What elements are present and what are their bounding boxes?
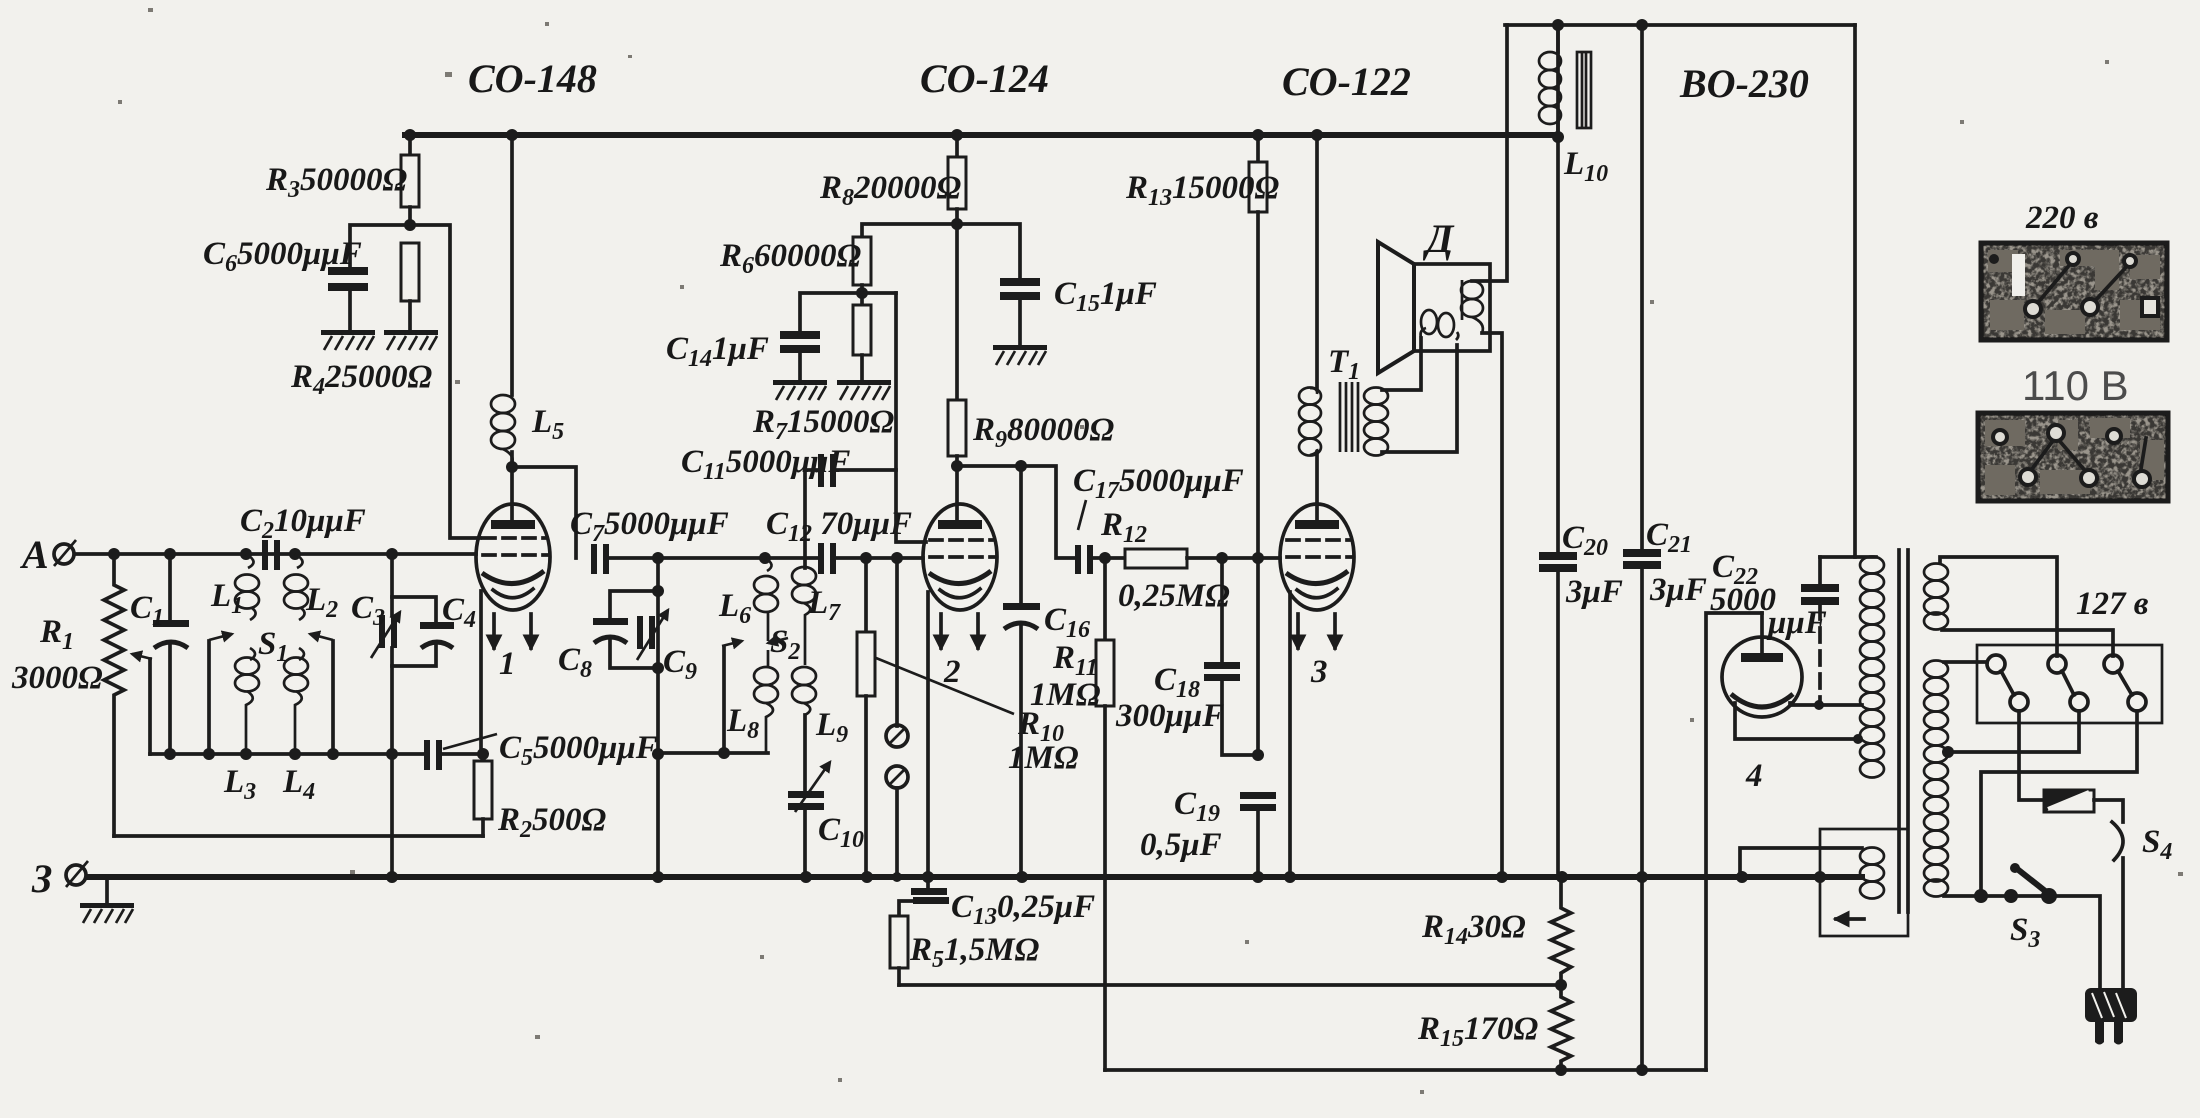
power transformer primary winding 1 (1924, 564, 1948, 630)
node junction dots on ground bus (386, 871, 1826, 883)
wire: S3 to plug (2049, 896, 2100, 990)
tube 4 filament arc (1731, 694, 1793, 707)
selector top contacts (1987, 655, 2005, 673)
capacitor C16 (1019, 466, 1023, 603)
resistor R10 1MΩ (864, 558, 868, 632)
svg-text:3μF: 3μF (1565, 574, 1623, 610)
node: R3/R4 junction (404, 219, 416, 231)
svg-text:C151μF: C151μF (1054, 276, 1157, 317)
variable capacitor C9 (637, 616, 643, 649)
capacitor C15 1μF (1000, 278, 1040, 286)
resistor R11 1MΩ (1103, 558, 1107, 640)
switch S3 (1974, 888, 2057, 904)
T1 secondary winding (1364, 388, 1388, 405)
tube 1 grid dashes (483, 538, 547, 555)
svg-text:C210μμF: C210μμF (240, 503, 366, 544)
wire: detector tank bottom rail (658, 751, 768, 755)
tube 1 heater arrows (492, 614, 496, 648)
svg-text:R980000Ω: R980000Ω (972, 412, 1115, 453)
svg-text:CO-122: CO-122 (1282, 59, 1411, 104)
tube 1 anode bar (491, 520, 535, 529)
capacitor C18 300μμF (1220, 558, 1224, 662)
wire: S1 right post (331, 641, 335, 754)
L10 core bar (1577, 52, 1591, 128)
svg-text:А: А (19, 532, 49, 577)
wire: rectifier output top line (1505, 23, 1855, 27)
wire: plate junction to C16/C17 (957, 466, 1078, 558)
svg-text:1: 1 (499, 646, 516, 682)
wire: C8/C9 branch drop (656, 558, 660, 877)
vacuum tube 2 (CO-124) envelope (923, 504, 997, 610)
inductor L2 (295, 554, 303, 568)
wire: tank circuit ground rail (150, 752, 427, 756)
svg-text:4: 4 (1745, 758, 1763, 794)
wire: fuse to S4 (2094, 800, 2123, 822)
tube 2 heater arrows (939, 614, 943, 648)
node junction dots on B+ bus (404, 129, 1564, 143)
capacitor C4 (420, 622, 454, 629)
capacitor C5 5000μμF (424, 740, 430, 770)
wire: junction to C6 (350, 225, 410, 267)
inductor L6 (765, 558, 772, 571)
capacitor C14 1μF (780, 331, 820, 339)
wire: primary W2 bottom to switch S3 (1944, 894, 2049, 898)
svg-text:R660000Ω: R660000Ω (719, 238, 862, 279)
svg-text:R15170Ω: R15170Ω (1417, 1011, 1539, 1052)
resistor R1 3000Ω (potentiometer) (104, 554, 124, 836)
wire: B+ to T1 primary (1315, 135, 1319, 388)
wire: bias network bottom line (1105, 1068, 1706, 1072)
tube 2 cathode arcs (929, 571, 991, 584)
wire: junction to C14 (800, 293, 896, 331)
wire: tube 2 screen feed (896, 470, 926, 542)
wire: tube1 output line to C12 (609, 556, 820, 560)
socket S4 (2112, 822, 2123, 860)
svg-text:R350000Ω: R350000Ω (265, 162, 408, 203)
svg-text:2: 2 (943, 654, 961, 690)
svg-text:BO-230: BO-230 (1679, 61, 1809, 106)
wire: B+ to L5 (510, 135, 514, 395)
wire: primary W2 tap to selector (1948, 711, 2079, 752)
wire: tube 4 filament left lead (1735, 703, 1856, 739)
resistor R8 20000Ω (955, 135, 959, 157)
tube 1 cathode arcs (482, 571, 544, 584)
svg-text:220 в: 220 в (2025, 200, 2099, 236)
capacitor C21 3μF (1640, 25, 1644, 549)
svg-text:μμF: μμF (1766, 605, 1827, 641)
wire: tube 1 cathode lead (479, 591, 483, 754)
node: C18/C19 junction (1252, 749, 1264, 761)
node: R8 bottom junction (951, 218, 963, 230)
wire: screen feed of tube 1 (410, 225, 480, 538)
selector links (2001, 671, 2014, 695)
mains plug (2085, 988, 2137, 1022)
wire: HT line down to transformer top (1820, 25, 1855, 557)
svg-text:C141μF: C141μF (666, 331, 769, 372)
wire: primary W2 top to selector circle 1 (1944, 660, 1987, 664)
wire: S4 to plug (2121, 858, 2125, 990)
fuse (2044, 790, 2094, 812)
node: R6/R7/C14 junction (856, 287, 868, 299)
resistor R2 500Ω (474, 761, 492, 819)
transformer tap adjust arrow (1836, 917, 1864, 921)
svg-text:R2500Ω: R2500Ω (497, 802, 607, 843)
wire: C12 to tube 2 grid (836, 556, 923, 560)
svg-text:R715000Ω: R715000Ω (752, 404, 895, 445)
capacitor C8 (610, 591, 658, 618)
wire: L7 top to C11 (805, 468, 818, 472)
variable capacitor C10 (803, 715, 807, 791)
svg-text:1MΩ: 1MΩ (1008, 740, 1079, 776)
wire: R1 wiper to tank rail (148, 659, 152, 754)
wire: T1 secondary top to humbucking coil (1382, 338, 1421, 390)
svg-text:Д: Д (1422, 216, 1455, 261)
svg-text:127 в: 127 в (2076, 586, 2149, 622)
ground below C6 (321, 330, 375, 350)
capacitor C6 5000μμF (328, 267, 368, 275)
svg-text:R820000Ω: R820000Ω (819, 170, 962, 211)
wire: S2 pole to rail (722, 648, 726, 753)
svg-text:R51,5MΩ: R51,5MΩ (909, 932, 1040, 973)
tube 4 anode bar (1741, 653, 1783, 662)
svg-text:C130,25μF: C130,25μF (951, 889, 1095, 930)
svg-text:0,25MΩ: 0,25MΩ (1118, 578, 1230, 614)
110V plugboard photo (1978, 413, 2168, 501)
resistor R9 80000Ω (955, 224, 959, 400)
voice coil (1461, 280, 1464, 320)
capacitor C1 (168, 554, 172, 622)
R1 wiper arrow (132, 654, 152, 659)
loudspeaker magnet frame (1414, 264, 1490, 351)
humbucking coil (1421, 310, 1437, 334)
node: tube 2 plate junction (951, 460, 963, 472)
inductor L5 (491, 395, 515, 413)
capacitor C20 3μF (1556, 25, 1560, 552)
svg-text:R425000Ω: R425000Ω (290, 359, 433, 400)
ground below R7 (837, 380, 891, 400)
power transformer HV secondary winding (1855, 555, 1876, 559)
220V plugboard photo (1981, 243, 2167, 340)
ground below C15 (993, 345, 1047, 365)
filter choke L10 (1556, 25, 1560, 52)
variable capacitor C3 (379, 615, 385, 648)
wire: AVC line R5 to R14/R15 junction (899, 983, 1559, 987)
wire: selector circle1 to fuse (2019, 711, 2044, 800)
wire: voice coil bottom to ground bus (1482, 333, 1502, 877)
resistor R4 25000Ω (401, 243, 419, 301)
ground below R4 (384, 330, 438, 350)
inductor L9 (792, 667, 816, 685)
inductor L1 (246, 554, 254, 568)
tube 2 anode bar (938, 520, 982, 529)
resistor R5 1,5MΩ (890, 916, 908, 968)
wire: C11 to R6/R7 junction (836, 293, 896, 470)
resistor R14 30Ω (1551, 877, 1571, 985)
wire: antenna line A (76, 552, 476, 556)
pickup jack terminal circles (895, 558, 899, 726)
wire: primary W1 top to selector (1940, 557, 2057, 656)
svg-text:C12 70μμF: C12 70μμF (766, 506, 912, 547)
wire: rail drop to ground bus (390, 754, 394, 877)
wire: T1 secondary bottom (1382, 345, 1457, 452)
wire: junction to R6 (862, 224, 957, 237)
T1 core (1340, 382, 1358, 452)
power transformer core (1897, 550, 1901, 912)
node: tube1 plate junction (506, 461, 518, 473)
svg-text:110 В: 110 В (2022, 362, 2129, 409)
svg-text:3000Ω: 3000Ω (11, 660, 103, 696)
ground symbol at З terminal (105, 877, 109, 903)
wire: tube 3 cathode to ground bus (1288, 592, 1292, 877)
svg-text:З: З (31, 856, 52, 901)
wire: C3/C4 bottom rail (392, 644, 436, 666)
svg-text:3: 3 (1310, 654, 1328, 690)
resistor R13 15000Ω (1256, 135, 1260, 162)
wire: R1/R2 bottom return (114, 834, 483, 838)
wire: tube 4 plate line (1706, 613, 1762, 1070)
svg-text:3μF: 3μF (1649, 572, 1707, 608)
wire: C3/C4 parallel group top rail (390, 554, 394, 615)
wire: tube 2 cathode to ground bus (926, 592, 930, 877)
inductor L4 (299, 648, 304, 660)
transformer shield box (1820, 829, 1908, 936)
power transformer filament winding (1860, 848, 1884, 899)
resistor R6 60000Ω (853, 237, 871, 285)
capacitor C19 0,5μF (1240, 792, 1276, 799)
wire: ground bus (bottom) (88, 874, 1862, 880)
wire: plate junction down to tube 1 anode (510, 467, 514, 521)
wire: selector circle3 to S3 branch (1981, 711, 2137, 896)
ground below C14 (773, 380, 827, 400)
vacuum tube 1 (CO-148) envelope (476, 504, 550, 610)
node: C5/R2 junction (477, 748, 489, 760)
inductor L3 (250, 648, 255, 660)
resistor R15 170Ω (1551, 985, 1571, 1070)
svg-text:5000: 5000 (1710, 582, 1776, 618)
voltage selector box (1977, 645, 2162, 723)
wire: plate junction to C7 (512, 467, 576, 558)
wire: tube 4 filament right lead (1790, 703, 1862, 705)
svg-text:1MΩ: 1MΩ (1030, 677, 1101, 713)
svg-text:CO-148: CO-148 (468, 56, 597, 101)
svg-text:0,5μF: 0,5μF (1140, 827, 1222, 863)
capacitor C13 0,25μF (926, 877, 930, 888)
selector bottom contacts (2010, 693, 2028, 711)
wire: R8 junction to C15 (957, 224, 1020, 278)
wire: tube 3 plate to T1 (1315, 452, 1319, 521)
power transformer primary winding 2 (1924, 661, 1948, 897)
svg-text:300μμF: 300μμF (1115, 698, 1224, 734)
wire: S1 left post (207, 641, 211, 754)
rectifier tube 4 (BO-230) (1722, 637, 1802, 717)
resistor R3 50000Ω (408, 135, 412, 155)
resistor R7 15000Ω (860, 293, 864, 305)
node: R14/R15 junction (1555, 979, 1567, 991)
wire: R12 to tube 3 grid (1187, 556, 1280, 560)
tube 3 grid dashes (1287, 540, 1351, 557)
vacuum tube 3 (CO-122) envelope (1280, 504, 1354, 610)
inductor L7 (803, 470, 807, 568)
dashed wire: C22 to filament (1818, 605, 1822, 705)
svg-text:R1430Ω: R1430Ω (1421, 909, 1526, 950)
wire: voice coil top to HT top line (1472, 25, 1507, 281)
tube 3 anode bar (1295, 520, 1339, 529)
tube 2 grid dashes (930, 540, 994, 557)
wire: primary W1 bottom to selector (1942, 630, 2113, 656)
tube 3 heater arrows (1296, 614, 1300, 648)
inductor L8 (767, 650, 770, 668)
svg-text:CO-124: CO-124 (920, 56, 1049, 101)
wire: C21 line below bus to bias network (1640, 877, 1644, 1070)
wire: B+ bus (top) (405, 132, 1558, 138)
tube 3 cathode arcs (1286, 571, 1348, 584)
node: C17/R11 junction (1093, 556, 1125, 560)
